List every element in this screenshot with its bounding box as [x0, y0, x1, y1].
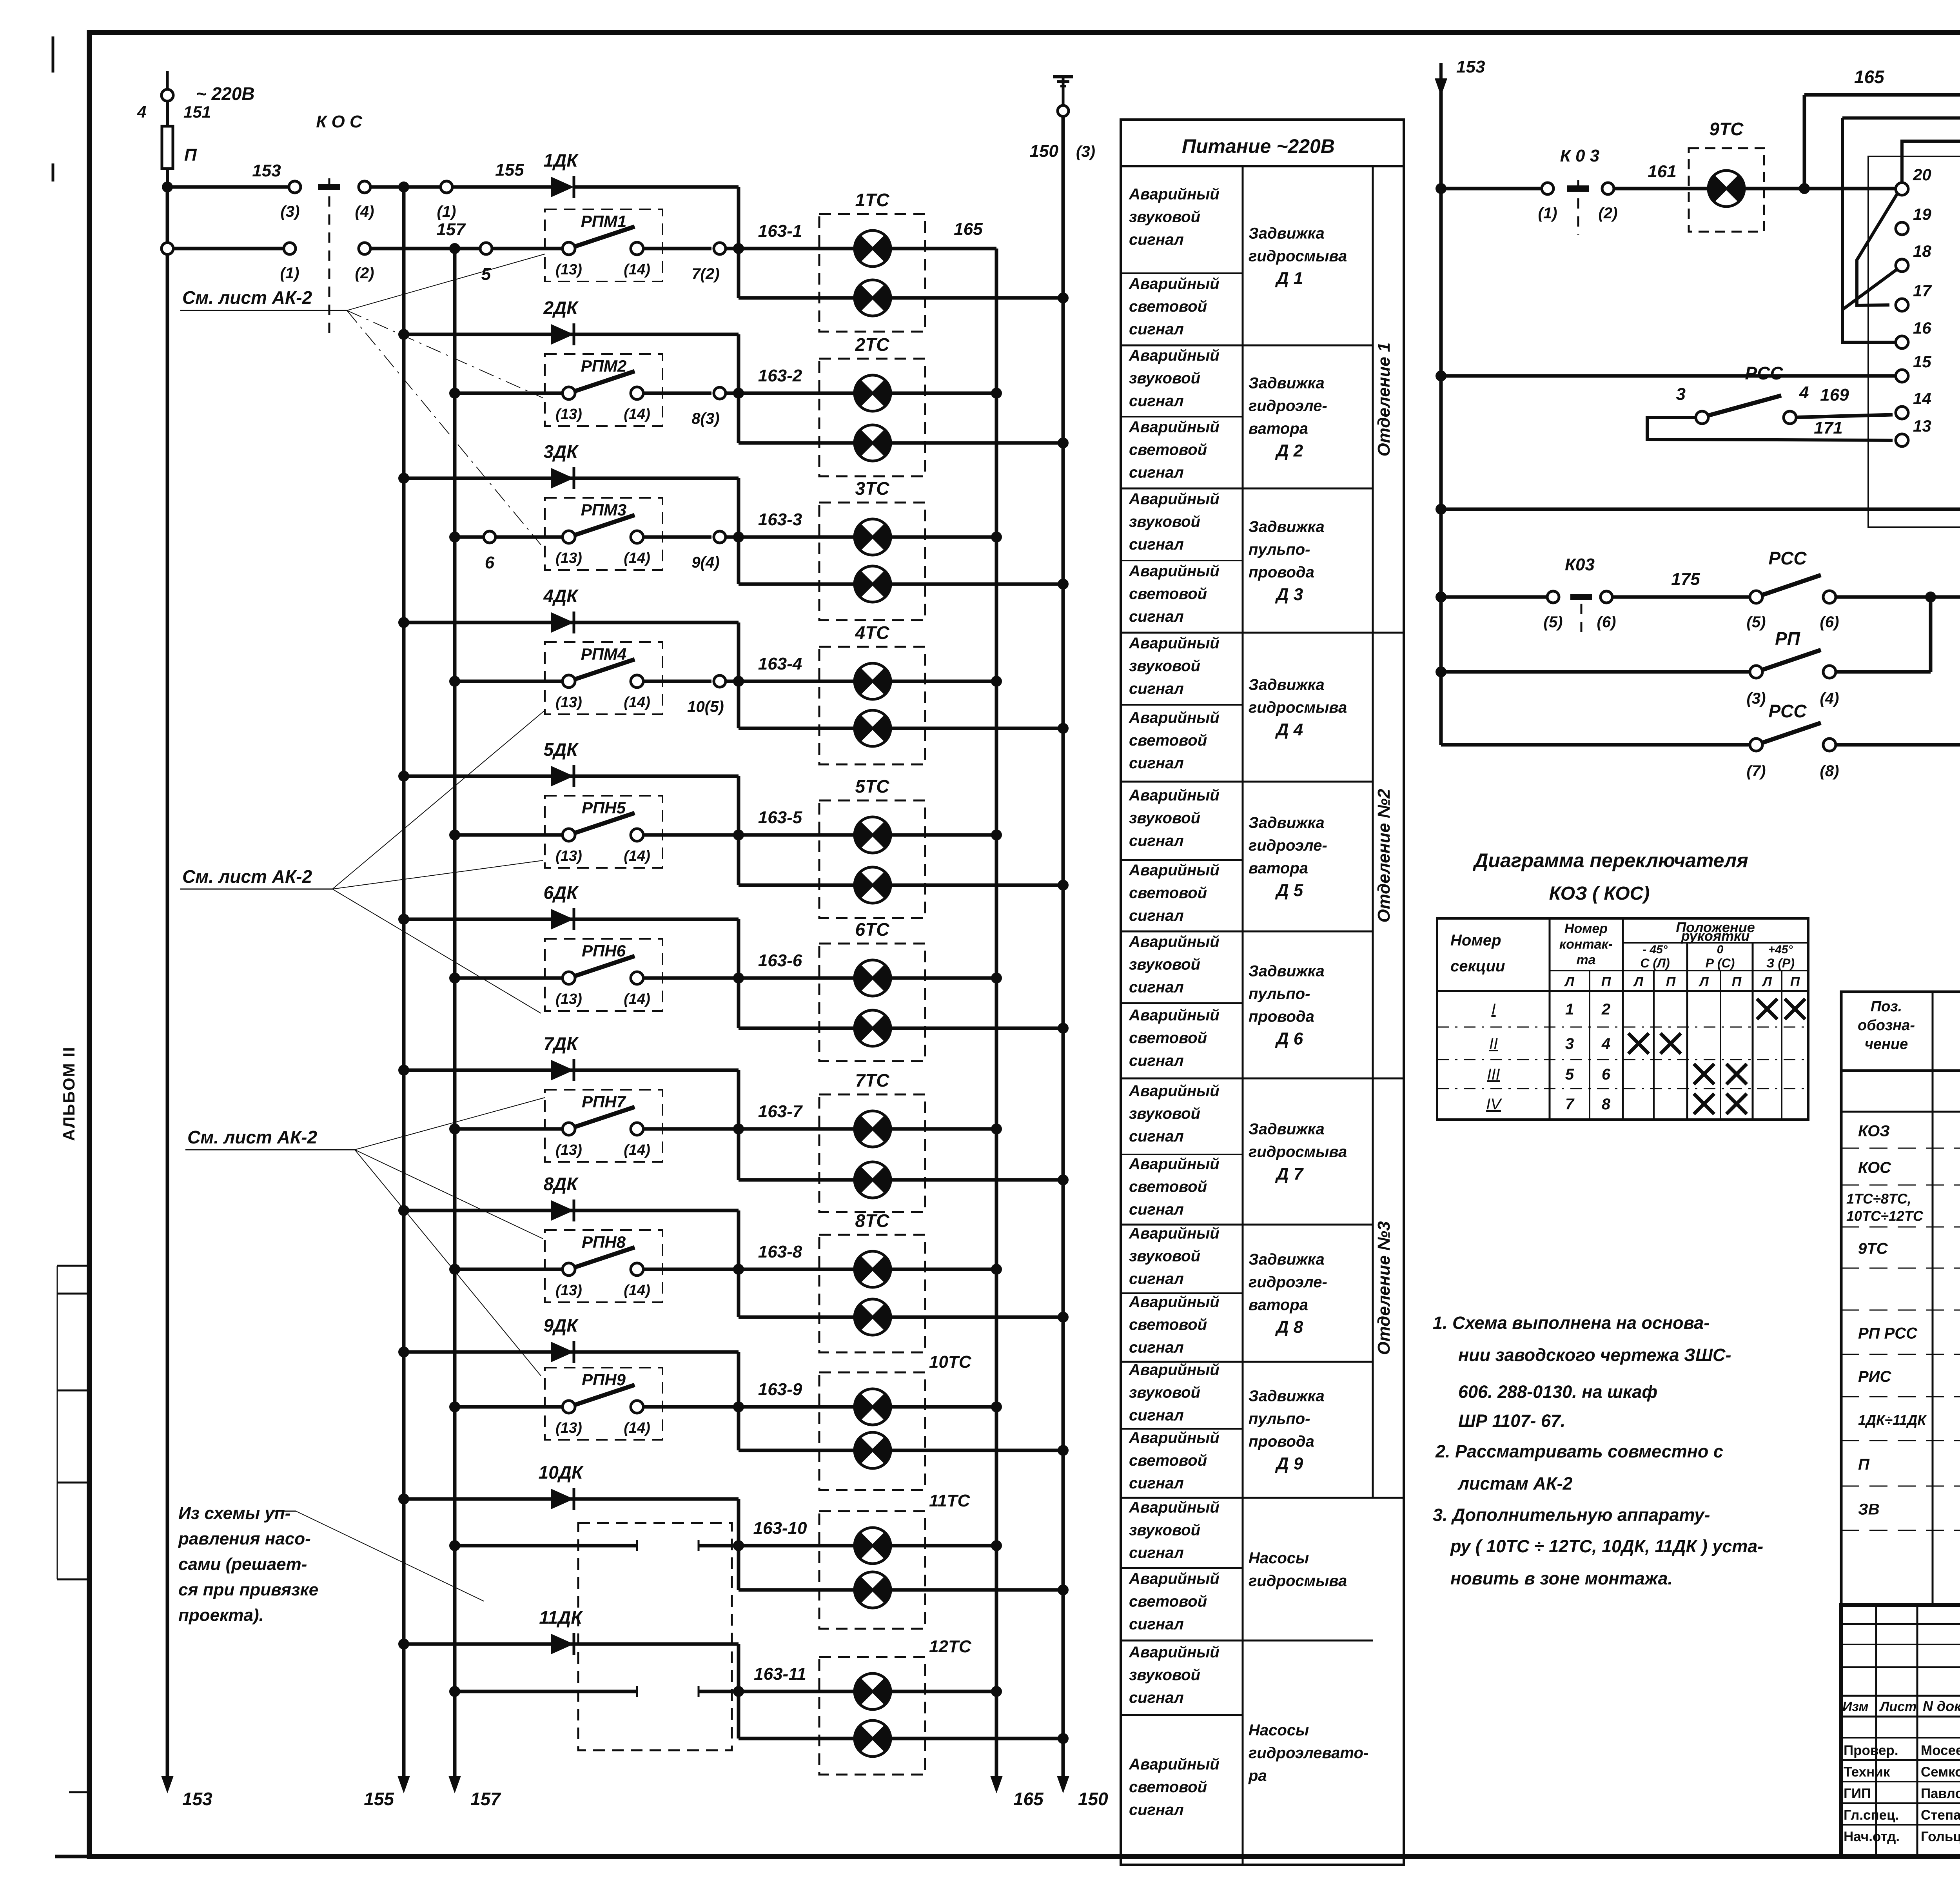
svg-text:(6): (6): [1597, 613, 1616, 631]
svg-text:световой: световой: [1129, 1593, 1207, 1610]
svg-text:9ДК: 9ДК: [543, 1315, 579, 1336]
lamp 10ТС light: [855, 1432, 891, 1468]
signal board box 2ТС: [819, 334, 925, 476]
svg-text:1ДК: 1ДК: [543, 150, 579, 171]
wire 165 to continuation arrow: [1804, 58, 1960, 189]
power table load name 3: [1249, 518, 1325, 604]
svg-text:(14): (14): [624, 550, 650, 566]
svg-text:(1): (1): [280, 265, 299, 282]
bus 165 exit: [995, 1691, 998, 1787]
svg-text:новить в зоне монтажа.: новить в зоне монтажа.: [1450, 1568, 1673, 1588]
lamp 10ТС sound: [855, 1389, 891, 1425]
svg-text:Задвижка: Задвижка: [1249, 814, 1325, 831]
switch КОЗ pole 2: [1565, 555, 1595, 635]
arrow bus 155 bottom: [364, 1776, 410, 1809]
svg-text:(6): (6): [1820, 613, 1839, 631]
svg-text:гидросмыва: гидросмыва: [1249, 1143, 1347, 1161]
relay contact РПМ4: [449, 642, 739, 715]
signal board box 11ТС: [819, 1491, 971, 1629]
svg-text:+45°: +45°: [1768, 943, 1793, 956]
jumper horizontal 301 with corner to pin 8: [1842, 118, 1960, 265]
svg-text:звуковой: звуковой: [1129, 809, 1200, 827]
svg-text:(13): (13): [555, 1282, 582, 1299]
svg-text:РСС: РСС: [1745, 363, 1783, 383]
svg-text:РПМ3: РПМ3: [581, 501, 627, 519]
svg-text:4: 4: [1601, 1035, 1610, 1053]
power table row group 3 lines: [1121, 561, 1404, 633]
svg-text:1ТС÷8ТС,: 1ТС÷8ТС,: [1846, 1191, 1911, 1207]
node on bus 153: [162, 181, 173, 192]
svg-text:165: 165: [954, 220, 983, 239]
node 163-1 junction: [733, 243, 744, 254]
svg-text:рукоятки: рукоятки: [1681, 928, 1750, 944]
svg-text:звуковой: звуковой: [1129, 657, 1200, 675]
lamp 2ТС light: [855, 425, 891, 461]
signal board box 12ТС: [819, 1637, 972, 1775]
dashed box future pumps connection: [578, 1523, 732, 1750]
signal board box 6ТС: [819, 919, 925, 1061]
note from pump control circuit: [178, 1504, 484, 1625]
svg-text:(14): (14): [624, 1282, 650, 1299]
lamp 4ТС sound: [855, 663, 891, 699]
lamp 1ТС light: [855, 280, 891, 316]
svg-text:сигнал: сигнал: [1129, 1689, 1184, 1706]
svg-text:3: 3: [1676, 385, 1686, 404]
svg-text:6: 6: [485, 553, 495, 572]
signal board box 1ТС: [819, 190, 925, 332]
node 163-4 junction: [733, 676, 744, 687]
svg-text:П: П: [1601, 974, 1612, 989]
lamp 8ТС light: [855, 1299, 891, 1335]
svg-text:Задвижка: Задвижка: [1249, 1388, 1325, 1405]
ground symbol bus 150: [1053, 77, 1073, 116]
svg-text:153: 153: [252, 161, 281, 180]
contact terminal (1) lower: [280, 243, 299, 282]
wire lamp 9ТС to node: [1744, 187, 1902, 191]
svg-text:П: П: [1666, 974, 1676, 989]
wire 163-1: [739, 221, 855, 249]
svg-text:Аварийный: Аварийный: [1129, 1429, 1220, 1446]
lamp 9ТС: [1689, 119, 1764, 232]
switch diagram header texts: [1450, 919, 1800, 989]
svg-text:Аварийный: Аварийный: [1129, 1156, 1220, 1173]
svg-text:сигнал: сигнал: [1129, 321, 1184, 338]
jumper diagonal from pin 18: [1842, 270, 1896, 310]
signal board box 10ТС: [819, 1352, 972, 1490]
contact РСС 3-4 return loop: [1647, 363, 1893, 440]
svg-text:Насосы: Насосы: [1249, 1722, 1309, 1739]
svg-text:Д 7: Д 7: [1275, 1165, 1304, 1184]
svg-text:гидроэлевато-: гидроэлевато-: [1249, 1744, 1368, 1762]
svg-text:Аварийный: Аварийный: [1129, 1570, 1220, 1588]
svg-text:(13): (13): [555, 694, 582, 711]
svg-text:16: 16: [1913, 319, 1931, 337]
component table grid: [1841, 992, 1960, 1605]
riser rung 1: [737, 187, 740, 298]
node 163-9 junction: [733, 1401, 744, 1412]
wire 163-11: [739, 1664, 855, 1691]
svg-text:Питание ~220В: Питание ~220В: [1182, 135, 1335, 157]
svg-text:сигнал: сигнал: [1129, 907, 1184, 924]
power table row group 7 lines: [1121, 1154, 1373, 1225]
svg-text:Аварийный: Аварийный: [1129, 186, 1220, 203]
svg-text:та: та: [1576, 953, 1595, 967]
svg-text:РИС: РИС: [1858, 1368, 1891, 1385]
lamp 1ТС sound: [855, 230, 891, 267]
power table text sound signal 5: [1129, 787, 1220, 849]
svg-text:ЗВ: ЗВ: [1858, 1501, 1880, 1518]
arrow bus 165 bottom: [990, 1776, 1044, 1809]
component table header: [1858, 998, 1960, 1053]
svg-text:Д 8: Д 8: [1275, 1317, 1303, 1337]
wire 163-9 stub from bus 157: [449, 1540, 739, 1551]
svg-text:163-6: 163-6: [758, 951, 802, 970]
switch diagram row I: [1491, 999, 1805, 1019]
junction 165 riser rung 9: [991, 1401, 1002, 1412]
wire lamp to 165 riser: [891, 1268, 996, 1271]
svg-text:нии заводского чертежа ЗШС-: нии заводского чертежа ЗШС-: [1458, 1345, 1731, 1365]
svg-text:1. Схема выполнена на основа-: 1. Схема выполнена на основа-: [1433, 1313, 1710, 1333]
notes text: [1433, 1313, 1763, 1588]
lamp 2ТС sound: [855, 375, 891, 411]
svg-text:световой: световой: [1129, 1778, 1207, 1796]
svg-text:Аварийный: Аварийный: [1129, 1499, 1220, 1516]
svg-text:(8): (8): [1820, 762, 1839, 780]
component row 9ТС: [1841, 1231, 1960, 1268]
svg-text:Л: Л: [1761, 974, 1772, 989]
junction 165 riser rung 7: [991, 1123, 1002, 1134]
svg-text:Номер: Номер: [1450, 932, 1501, 949]
contact terminal (5) КОЗ: [1441, 591, 1563, 631]
svg-text:Лист: Лист: [1879, 1699, 1916, 1714]
svg-text:Аварийный: Аварийный: [1129, 635, 1220, 652]
svg-text:Диаграмма переключателя: Диаграмма переключателя: [1472, 849, 1748, 871]
lamp 12ТС sound: [855, 1673, 891, 1709]
svg-text:Номер: Номер: [1564, 921, 1608, 936]
svg-text:(7): (7): [1747, 762, 1766, 780]
switch diagram row III: [1487, 1064, 1747, 1084]
wire 220V lower row: [162, 243, 284, 254]
wire light-lamp row 4ТС: [739, 727, 855, 730]
svg-text:4ДК: 4ДК: [543, 586, 579, 606]
junction 165 riser rung 6: [991, 973, 1002, 984]
frame bottom left extension: [55, 1855, 89, 1858]
svg-text:153: 153: [182, 1789, 212, 1809]
svg-text:гидроэле-: гидроэле-: [1249, 837, 1327, 854]
svg-text:Павлова: Павлова: [1921, 1786, 1960, 1801]
svg-text:АЛЬБОМ II: АЛЬБОМ II: [60, 1046, 78, 1141]
svg-text:П: П: [1790, 974, 1800, 989]
svg-text:10(5): 10(5): [687, 698, 724, 715]
svg-text:Задвижка: Задвижка: [1249, 518, 1325, 535]
svg-text:гидроэле-: гидроэле-: [1249, 397, 1327, 415]
svg-text:6: 6: [1602, 1066, 1611, 1083]
pin 14 РИС: [1896, 389, 1931, 419]
svg-text:Аварийный: Аварийный: [1129, 933, 1220, 951]
power table row group 5 lines: [1121, 860, 1373, 931]
svg-text:РПМ2: РПМ2: [581, 357, 627, 375]
svg-text:обозна-: обозна-: [1858, 1017, 1915, 1034]
node return row: [1436, 370, 1446, 381]
lamp 7ТС sound: [855, 1111, 891, 1147]
junction bus 150 rung 10: [1058, 1584, 1069, 1595]
svg-text:(1): (1): [437, 203, 456, 220]
svg-text:(3): (3): [1076, 143, 1095, 160]
power table text light signal 6: [1129, 1007, 1220, 1069]
svg-text:сигнал: сигнал: [1129, 1616, 1184, 1633]
svg-text:606. 288-0130. на шкаф: 606. 288-0130. на шкаф: [1458, 1382, 1657, 1402]
svg-text:К 0 3: К 0 3: [1560, 146, 1599, 165]
lamp 11ТС light: [855, 1572, 891, 1608]
riser rung 11: [737, 1644, 740, 1738]
switch КОЗ pole 1: [1560, 146, 1599, 235]
svg-text:сигнал: сигнал: [1129, 1128, 1184, 1145]
svg-text:КОС: КОС: [1858, 1159, 1891, 1176]
svg-text:2ДК: 2ДК: [543, 298, 579, 318]
svg-text:звуковой: звуковой: [1129, 956, 1200, 973]
svg-text:См. лист АК-2: См. лист АК-2: [182, 866, 312, 887]
wire light-lamp row 7ТС: [739, 1178, 855, 1182]
lamp 8ТС sound: [855, 1251, 891, 1287]
power table load name 9: [1249, 1388, 1325, 1474]
svg-text:Нач.отд.: Нач.отд.: [1844, 1829, 1900, 1844]
svg-text:Д 4: Д 4: [1275, 720, 1303, 739]
wire light-lamp row 11ТС: [739, 1588, 855, 1592]
svg-text:1: 1: [1565, 1001, 1574, 1018]
svg-text:световой: световой: [1129, 1178, 1207, 1196]
svg-text:165: 165: [1854, 67, 1885, 87]
power table load name 6: [1249, 963, 1325, 1049]
svg-text:пульпо-: пульпо-: [1249, 1410, 1310, 1428]
svg-text:Аварийный: Аварийный: [1129, 787, 1220, 804]
svg-text:6ТС: 6ТС: [855, 919, 890, 940]
power table row group 11 lines: [1121, 1714, 1243, 1716]
node 163-10 junction: [733, 1540, 744, 1551]
svg-text:Л: Л: [1698, 974, 1709, 989]
component row 1ДК÷11ДК: [1841, 1402, 1960, 1441]
wire lamp 11ТС to bus 150: [891, 1588, 1063, 1592]
relay contact РПМ1: [455, 209, 739, 284]
svg-text:Аварийный: Аварийный: [1129, 419, 1220, 436]
svg-text:световой: световой: [1129, 884, 1207, 902]
svg-text:ватора: ватора: [1249, 1296, 1308, 1314]
svg-text:сигнал: сигнал: [1129, 1544, 1184, 1562]
svg-text:Д 6: Д 6: [1275, 1029, 1303, 1049]
svg-text:пульпо-: пульпо-: [1249, 985, 1310, 1003]
node bus 157: [436, 220, 466, 254]
riser rung 2: [737, 334, 740, 443]
component row 1ТС÷8ТС,|10ТС÷12ТС: [1841, 1189, 1960, 1227]
wire lamp to 165 riser: [891, 535, 996, 539]
wire lamp to 165 riser: [891, 1405, 996, 1409]
riser rung 5: [737, 776, 740, 885]
node 163-7 junction: [733, 1123, 744, 1134]
junction bus 150 rung 8: [1058, 1312, 1069, 1323]
svg-text:(14): (14): [624, 694, 650, 711]
svg-text:звуковой: звуковой: [1129, 209, 1200, 226]
svg-text:Аварийный: Аварийный: [1129, 563, 1220, 580]
svg-text:163-11: 163-11: [754, 1664, 806, 1684]
signal board box 4ТС: [819, 622, 925, 764]
svg-text:звуковой: звуковой: [1129, 1384, 1200, 1401]
svg-text:Задвижка: Задвижка: [1249, 1121, 1325, 1138]
svg-text:163-4: 163-4: [758, 654, 802, 673]
svg-text:(13): (13): [555, 550, 582, 566]
svg-text:(5): (5): [1747, 613, 1766, 631]
svg-text:П: П: [1858, 1456, 1870, 1473]
svg-text:ШР 1107- 67.: ШР 1107- 67.: [1458, 1411, 1565, 1431]
svg-text:(13): (13): [555, 406, 582, 423]
power table load name 1: [1249, 225, 1347, 288]
power table row group 8 lines: [1121, 1293, 1373, 1362]
wire lamp 6ТС to bus 150: [891, 1027, 1063, 1030]
svg-text:Поз.: Поз.: [1871, 998, 1902, 1015]
relay contact РПН5: [449, 796, 739, 868]
svg-text:Аварийный: Аварийный: [1129, 709, 1220, 726]
svg-text:Провер.: Провер.: [1844, 1743, 1898, 1758]
diode 4ДК row: [398, 586, 739, 633]
jumper diagonal from pin 20: [1857, 194, 1897, 305]
wire 153 top row: [167, 161, 288, 187]
svg-text:13: 13: [1913, 417, 1931, 435]
svg-text:5: 5: [1565, 1066, 1574, 1083]
svg-text:Отделение 1: Отделение 1: [1374, 343, 1394, 457]
svg-text:(2): (2): [1599, 205, 1618, 222]
svg-text:сигнал: сигнал: [1129, 464, 1184, 481]
power table text sound signal 3: [1129, 490, 1220, 553]
svg-text:Из схемы уп-: Из схемы уп-: [178, 1504, 290, 1523]
wire lamp to 165 riser: [891, 1127, 996, 1131]
junction 165 riser rung 10: [991, 1540, 1002, 1551]
svg-text:РПН5: РПН5: [582, 798, 626, 817]
power table text sound signal 7: [1129, 1082, 1220, 1145]
lamp 6ТС light: [855, 1010, 891, 1046]
power table text light signal 5: [1129, 862, 1220, 924]
component row Лампа РНЦ 220-10: [1841, 1281, 1960, 1310]
svg-text:сигнал: сигнал: [1129, 1801, 1184, 1818]
junction bus 150 rung 5: [1058, 880, 1069, 891]
svg-text:(3): (3): [281, 203, 300, 220]
power table text sound signal 6: [1129, 933, 1220, 996]
svg-text:РПН7: РПН7: [582, 1092, 626, 1111]
scan staple marks top left: [52, 36, 54, 181]
svg-text:Семкова: Семкова: [1921, 1764, 1960, 1780]
power table text sound signal 4: [1129, 635, 1220, 697]
left margin fold marks and album label: [57, 1046, 89, 1792]
svg-text:155: 155: [364, 1789, 394, 1809]
svg-text:световой: световой: [1129, 441, 1207, 459]
svg-text:8(3): 8(3): [691, 410, 719, 427]
svg-text:153: 153: [1456, 57, 1485, 76]
svg-text:звуковой: звуковой: [1129, 370, 1200, 387]
junction 165 riser rung 3: [991, 532, 1002, 543]
svg-text:5ДК: 5ДК: [543, 739, 579, 760]
svg-text:РПН6: РПН6: [582, 942, 626, 960]
wire 163-6: [739, 951, 855, 978]
diode 1ДК on wire 155: [543, 150, 739, 198]
wire to pin 15: [1441, 374, 1896, 378]
svg-text:(13): (13): [555, 1142, 582, 1158]
svg-text:7ДК: 7ДК: [543, 1033, 579, 1054]
arrow bus 150 bottom: [1057, 1776, 1108, 1809]
svg-text:РСС: РСС: [1768, 548, 1807, 568]
riser 165 chain: [995, 249, 998, 1691]
svg-text:листам АК-2: листам АК-2: [1457, 1474, 1573, 1494]
junction bus 150 rung 6: [1058, 1023, 1069, 1034]
svg-text:Аварийный: Аварийный: [1129, 347, 1220, 364]
wire light-lamp row 10ТС: [739, 1449, 855, 1452]
svg-text:8ТС: 8ТС: [855, 1210, 890, 1231]
svg-text:(13): (13): [555, 261, 582, 278]
signal board box 7ТС: [819, 1070, 925, 1212]
riser rung 10: [737, 1499, 740, 1590]
riser rung 9: [737, 1352, 740, 1450]
svg-text:К03: К03: [1565, 555, 1595, 574]
node 163-5 junction: [733, 829, 744, 840]
svg-text:Гл.спец.: Гл.спец.: [1844, 1807, 1899, 1823]
wire lamp 7ТС to bus 150: [891, 1178, 1063, 1182]
junction bus 150 rung 9: [1058, 1445, 1069, 1456]
svg-text:КОЗ: КОЗ: [1858, 1123, 1890, 1140]
diode 2ДК row: [398, 298, 739, 345]
svg-text:3ДК: 3ДК: [543, 441, 579, 462]
svg-text:РПН9: РПН9: [582, 1370, 626, 1389]
svg-text:сигнал: сигнал: [1129, 1407, 1184, 1424]
junction bus 150 rung 1: [1058, 292, 1069, 303]
svg-text:сами (решает-: сами (решает-: [178, 1555, 307, 1574]
svg-text:10ТС÷12ТС: 10ТС÷12ТС: [1846, 1208, 1924, 1224]
svg-text:световой: световой: [1129, 732, 1207, 749]
power table text sound signal 2: [1129, 347, 1220, 410]
wire to contact 11-12: [1441, 508, 1960, 511]
svg-text:5: 5: [481, 265, 491, 284]
node 163-11 junction: [733, 1686, 744, 1697]
pin 19 РИС: [1896, 205, 1931, 235]
svg-text:РПМ1: РПМ1: [581, 212, 627, 230]
svg-text:17: 17: [1913, 281, 1932, 300]
svg-text:175: 175: [1671, 570, 1700, 589]
svg-text:Аварийный: Аварийный: [1129, 862, 1220, 879]
power table row group 10 lines: [1121, 1568, 1373, 1640]
diode 3ДК row: [398, 441, 739, 489]
svg-text:(14): (14): [624, 261, 650, 278]
svg-text:6ДК: 6ДК: [543, 882, 579, 903]
junction 165 riser rung 4: [991, 676, 1002, 687]
svg-text:- 45°: - 45°: [1642, 943, 1668, 956]
svg-text:световой: световой: [1129, 298, 1207, 315]
svg-text:гидроэле-: гидроэле-: [1249, 1274, 1327, 1291]
wire lamp to 165 riser: [891, 1690, 996, 1693]
junction bus 150 rung 2: [1058, 437, 1069, 448]
power table row group 4 lines: [1121, 705, 1373, 782]
diode 10ДК row: [398, 1462, 739, 1510]
svg-text:Л: Л: [1633, 974, 1643, 989]
pin 17 РИС: [1896, 281, 1932, 311]
svg-text:I: I: [1491, 1001, 1495, 1018]
signal board box 5ТС: [819, 776, 925, 918]
svg-text:РПН8: РПН8: [582, 1233, 626, 1251]
svg-text:(14): (14): [624, 991, 650, 1007]
signal board box 8ТС: [819, 1210, 925, 1352]
power table text sound signal 8: [1129, 1225, 1220, 1288]
svg-text:(13): (13): [555, 848, 582, 864]
diode 6ДК row: [398, 882, 739, 930]
svg-text:Техник: Техник: [1844, 1764, 1890, 1780]
bus 153 right circuit: [1439, 78, 1443, 745]
signal board box 3ТС: [819, 478, 925, 620]
wire lamp 4ТС to bus 150: [891, 727, 1063, 730]
power table row group 2 lines: [1121, 417, 1373, 488]
